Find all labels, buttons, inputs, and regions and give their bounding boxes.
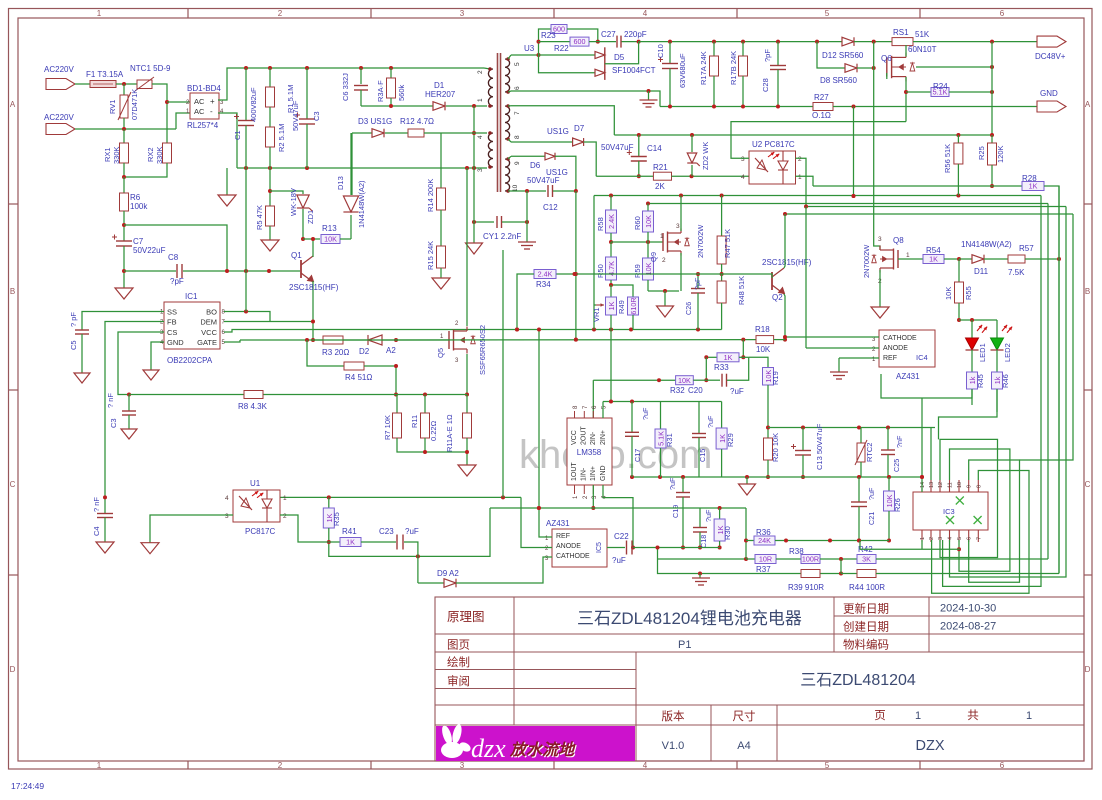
wire	[680, 253, 682, 291]
wire	[971, 350, 973, 372]
wire	[785, 213, 1073, 215]
svg-text:R22: R22	[554, 44, 569, 53]
wire	[721, 264, 723, 274]
svg-text:AZ431: AZ431	[896, 372, 920, 381]
mosfet Q6	[886, 57, 888, 76]
junction	[956, 133, 960, 137]
wire	[841, 573, 857, 575]
wire	[682, 477, 684, 492]
svg-text:3: 3	[460, 9, 465, 18]
wire	[881, 374, 972, 398]
svg-text:R58: R58	[596, 217, 605, 231]
ground C5	[74, 373, 90, 383]
wire	[996, 389, 998, 412]
svg-text:5: 5	[514, 62, 521, 66]
wire	[312, 239, 314, 257]
wire	[682, 497, 684, 548]
svg-text:D3 US1G: D3 US1G	[358, 117, 392, 126]
wire	[269, 147, 271, 168]
junction	[681, 475, 685, 479]
resistor R42	[857, 555, 876, 564]
wire	[957, 164, 959, 196]
junction	[801, 426, 805, 430]
wire	[605, 42, 639, 64]
svg-text:14: 14	[920, 482, 926, 488]
wire	[879, 270, 881, 307]
resistor R49	[628, 297, 639, 315]
svg-text:?uF: ?uF	[704, 509, 713, 522]
wire	[857, 67, 874, 69]
wire	[614, 134, 992, 136]
svg-text:R20 10K: R20 10K	[771, 433, 780, 462]
svg-text:1K: 1K	[607, 301, 616, 310]
svg-text:Q9: Q9	[649, 252, 658, 262]
svg-text:R13: R13	[322, 224, 337, 233]
wire	[75, 83, 90, 85]
wire	[887, 428, 889, 450]
wire	[796, 158, 807, 206]
svg-text:绘制: 绘制	[447, 655, 470, 669]
svg-text:50V22uF: 50V22uF	[133, 246, 166, 255]
junction	[574, 272, 578, 276]
wire	[739, 356, 749, 358]
wire	[592, 380, 594, 418]
junction	[990, 184, 994, 188]
svg-text:+: +	[210, 97, 215, 106]
junction	[127, 393, 131, 397]
junction	[744, 557, 748, 561]
wire	[151, 342, 164, 370]
diode D6	[545, 153, 555, 160]
wire	[906, 91, 931, 93]
svg-text:R49: R49	[617, 300, 626, 314]
wire	[473, 106, 475, 168]
wire	[706, 356, 717, 358]
wire	[466, 395, 468, 414]
svg-text:1K: 1K	[346, 538, 355, 547]
junction	[122, 82, 126, 86]
svg-text:C3: C3	[312, 111, 321, 121]
junction	[609, 194, 613, 198]
wire	[511, 190, 546, 192]
svg-text:17:24:49: 17:24:49	[11, 781, 44, 791]
wire	[802, 455, 804, 477]
wire	[840, 559, 842, 574]
junction	[311, 237, 315, 241]
wire	[596, 175, 653, 177]
wire	[176, 113, 190, 129]
ic IC3	[913, 492, 988, 530]
junction	[712, 105, 716, 109]
wire	[611, 280, 633, 297]
svg-text:C5: C5	[69, 340, 78, 350]
junction	[801, 475, 805, 479]
wire	[699, 508, 701, 527]
ground CY1 earth	[518, 241, 536, 243]
wire	[805, 207, 807, 349]
svg-text:2: 2	[283, 513, 287, 520]
junction	[637, 174, 641, 178]
svg-text:C1: C1	[233, 130, 242, 140]
svg-text:B: B	[1085, 287, 1090, 296]
svg-text:BD1-BD4: BD1-BD4	[187, 84, 221, 93]
wire	[841, 41, 843, 43]
wire	[742, 340, 744, 358]
svg-text:10K: 10K	[756, 345, 771, 354]
svg-text:R2 5.1M: R2 5.1M	[277, 124, 286, 152]
wire	[508, 55, 511, 59]
svg-text:10K: 10K	[644, 215, 653, 228]
svg-text:1: 1	[660, 233, 664, 240]
wire	[950, 449, 1010, 571]
ground C3b	[121, 429, 137, 439]
wire	[224, 321, 313, 323]
svg-text:1IN-: 1IN-	[581, 467, 588, 481]
wire	[360, 68, 362, 84]
svg-text:VCC: VCC	[201, 328, 217, 337]
wire	[691, 165, 693, 176]
wire	[424, 395, 426, 414]
junction	[537, 506, 541, 510]
svg-text:R8 4.3K: R8 4.3K	[238, 402, 268, 411]
wire	[124, 225, 227, 271]
junction	[766, 475, 770, 479]
svg-text:VR1: VR1	[592, 307, 601, 322]
junction	[839, 572, 843, 576]
resistor R38	[801, 555, 820, 564]
optocoupler U2	[749, 151, 796, 184]
svg-text:220pF: 220pF	[624, 30, 647, 39]
svg-text:C26: C26	[684, 302, 693, 315]
wire	[698, 402, 700, 434]
svg-text:C25: C25	[892, 459, 901, 472]
svg-text:A4: A4	[737, 740, 750, 752]
svg-text:C12: C12	[543, 203, 558, 212]
svg-text:SSF65R650S2: SSF65R650S2	[478, 325, 487, 375]
wire	[440, 133, 442, 188]
wire	[508, 139, 511, 142]
junction	[839, 557, 843, 561]
svg-text:600: 600	[574, 37, 586, 46]
svg-text:R30: R30	[723, 526, 732, 540]
wire	[721, 274, 723, 281]
wire	[555, 156, 576, 191]
wire	[777, 42, 779, 65]
svg-text:R31: R31	[665, 433, 674, 447]
ground R15	[432, 278, 450, 289]
wire	[858, 507, 860, 541]
svg-text:1: 1	[915, 710, 921, 722]
svg-text:D5: D5	[614, 53, 625, 62]
wire	[589, 41, 616, 43]
svg-text:120K: 120K	[996, 145, 1005, 163]
svg-text:R27: R27	[814, 93, 829, 102]
wire	[424, 438, 426, 452]
wire	[971, 389, 973, 405]
svg-text:2: 2	[278, 9, 283, 18]
svg-text:A: A	[10, 100, 16, 109]
svg-text:CY1 2.2nF: CY1 2.2nF	[483, 232, 521, 241]
wire	[776, 558, 801, 560]
wire	[727, 357, 749, 380]
junction	[630, 400, 634, 404]
svg-text:13: 13	[929, 482, 935, 488]
svg-text:RV1: RV1	[108, 100, 117, 114]
junction	[389, 66, 393, 70]
wire	[959, 319, 997, 321]
svg-text:R17B 24K: R17B 24K	[729, 51, 738, 85]
svg-text:D8 SR560: D8 SR560	[820, 76, 857, 85]
junction	[244, 269, 248, 273]
wire	[746, 540, 754, 542]
svg-text:dzx: dzx	[471, 734, 506, 763]
wire	[361, 105, 433, 107]
junction	[741, 40, 745, 44]
junction	[920, 475, 924, 479]
svg-text:2: 2	[929, 537, 935, 540]
junction	[267, 269, 271, 273]
wire	[343, 339, 368, 341]
junction	[712, 40, 716, 44]
svg-text:R3 20Ω: R3 20Ω	[322, 348, 349, 357]
wire	[603, 401, 722, 403]
svg-text:Q6: Q6	[881, 54, 892, 63]
junction	[327, 540, 331, 544]
wire	[397, 438, 467, 452]
junction	[957, 257, 961, 261]
junction	[690, 174, 694, 178]
wire	[128, 415, 130, 429]
svg-text:9: 9	[967, 485, 973, 488]
wire	[385, 132, 408, 134]
svg-text:3: 3	[878, 236, 882, 243]
junction	[704, 355, 708, 359]
svg-text:1OUT: 1OUT	[571, 462, 578, 481]
wire	[930, 428, 932, 481]
svg-text:R28: R28	[1022, 174, 1037, 183]
wire	[638, 161, 640, 176]
svg-text:R57: R57	[1019, 244, 1034, 253]
wire	[556, 273, 722, 275]
svg-text:C10: C10	[656, 44, 665, 58]
wire	[698, 438, 700, 478]
svg-text:V1.0: V1.0	[662, 740, 685, 752]
svg-text:C6 332J: C6 332J	[341, 73, 350, 101]
junction	[301, 237, 305, 241]
svg-text:Q2: Q2	[772, 293, 783, 302]
wire	[118, 332, 164, 395]
svg-text:C13 50V47uF: C13 50V47uF	[815, 423, 824, 470]
svg-text:BO: BO	[206, 308, 217, 317]
wire	[639, 41, 842, 43]
wire	[592, 485, 594, 508]
wire	[352, 132, 372, 134]
svg-text:?pF: ?pF	[693, 277, 702, 290]
junction	[658, 475, 662, 479]
svg-text:C7: C7	[133, 237, 144, 246]
wire	[958, 259, 960, 282]
diode D5 cathode bar	[604, 47, 606, 80]
junction	[815, 40, 819, 44]
svg-text:C17: C17	[633, 449, 642, 462]
wire	[511, 155, 545, 157]
svg-text:330K: 330K	[155, 146, 164, 164]
wire	[648, 290, 679, 292]
junction	[465, 393, 469, 397]
svg-text:PC817C: PC817C	[245, 527, 275, 536]
junction	[416, 554, 420, 558]
junction	[573, 272, 577, 276]
svg-text:C4: C4	[92, 526, 101, 536]
svg-text:2K: 2K	[655, 182, 665, 191]
wire	[633, 547, 683, 549]
svg-text:2N7002W: 2N7002W	[862, 244, 871, 278]
svg-text:610R: 610R	[629, 297, 638, 314]
svg-text:R56 51K: R56 51K	[943, 144, 952, 173]
svg-text:GND: GND	[600, 465, 607, 481]
wire	[360, 90, 362, 106]
svg-text:4: 4	[948, 537, 954, 540]
junction	[681, 546, 685, 550]
svg-text:D: D	[1085, 665, 1091, 674]
no-connect marks IC3	[956, 497, 964, 505]
wire	[245, 168, 247, 312]
wire	[991, 135, 993, 143]
junction	[852, 194, 856, 198]
svg-text:1: 1	[97, 761, 102, 770]
junction	[501, 495, 505, 499]
wire	[742, 76, 744, 107]
wire	[699, 574, 701, 579]
svg-text:7.5K: 7.5K	[1008, 268, 1025, 277]
svg-text:?uF: ?uF	[867, 487, 876, 500]
transformer primary winding 1	[488, 69, 493, 106]
svg-text:R39 910R: R39 910R	[788, 583, 824, 592]
junction	[990, 133, 994, 137]
svg-text:LED1: LED1	[978, 343, 987, 362]
resistor R21	[653, 172, 671, 180]
junction	[718, 546, 722, 550]
wire	[124, 270, 176, 272]
wire	[302, 209, 304, 239]
junction	[679, 194, 683, 198]
wire	[167, 101, 190, 103]
resistor R18	[756, 336, 774, 344]
wire	[396, 339, 756, 341]
junction	[630, 475, 634, 479]
wire	[838, 358, 840, 372]
wire	[508, 91, 511, 92]
svg-text:CS: CS	[167, 328, 177, 337]
svg-text:R15 24K: R15 24K	[426, 241, 435, 270]
wire	[722, 274, 772, 278]
wire	[269, 68, 271, 87]
wire	[306, 68, 308, 119]
wire	[672, 175, 750, 177]
wire	[631, 402, 633, 433]
svg-text:R54: R54	[926, 246, 941, 255]
junction	[122, 127, 126, 131]
wire	[996, 350, 998, 372]
wire	[328, 528, 330, 542]
wire	[746, 558, 755, 560]
ground Q8	[871, 307, 889, 318]
junction	[957, 318, 961, 322]
svg-text:R34: R34	[536, 280, 551, 289]
svg-text:共: 共	[967, 709, 979, 722]
svg-text:REF: REF	[556, 533, 570, 540]
svg-text:7: 7	[976, 537, 982, 540]
junction	[103, 495, 107, 499]
wire	[876, 558, 1048, 560]
wire	[82, 312, 164, 331]
wire	[382, 339, 396, 341]
port DC48V+	[1037, 36, 1066, 47]
junction	[359, 66, 363, 70]
svg-text:khcoo.com: khcoo.com	[519, 433, 712, 477]
wire	[351, 133, 353, 195]
svg-text:审阅: 审阅	[447, 674, 470, 688]
svg-text:C: C	[10, 480, 16, 489]
svg-text:400V82uF: 400V82uF	[249, 87, 258, 122]
wire	[719, 541, 721, 548]
svg-text:IC3: IC3	[943, 507, 955, 516]
wire	[874, 42, 880, 250]
wire	[466, 168, 468, 326]
wire	[237, 167, 487, 169]
wire	[303, 238, 320, 240]
svg-text:尺寸: 尺寸	[733, 709, 756, 723]
wire	[957, 135, 959, 143]
svg-text:3: 3	[676, 223, 680, 230]
wire	[315, 339, 396, 341]
svg-text:?uF: ?uF	[668, 477, 677, 490]
svg-text:4: 4	[477, 135, 484, 139]
svg-text:D2: D2	[359, 347, 370, 356]
junction	[609, 283, 613, 287]
wire	[959, 258, 972, 260]
svg-text:AZ431: AZ431	[546, 519, 570, 528]
wire	[691, 135, 693, 152]
wire	[104, 497, 106, 513]
wire	[508, 156, 511, 159]
wire	[508, 190, 511, 192]
junction	[225, 269, 229, 273]
wire	[971, 320, 973, 338]
wire	[123, 177, 125, 193]
junction	[663, 289, 667, 293]
wire	[669, 42, 671, 63]
junction	[720, 194, 724, 198]
optocoupler U1	[233, 490, 280, 522]
wire	[280, 496, 521, 498]
wire	[396, 395, 398, 414]
wire	[706, 379, 720, 381]
resistor R34	[534, 270, 556, 279]
svg-text:SF1004FCT: SF1004FCT	[612, 66, 656, 75]
svg-text:60N10T: 60N10T	[908, 45, 937, 54]
junction	[305, 338, 309, 342]
wire	[603, 485, 633, 548]
wire	[553, 190, 576, 192]
wire	[123, 246, 125, 288]
resistor R28	[1022, 182, 1044, 191]
svg-text:4: 4	[225, 495, 229, 502]
svg-text:100k: 100k	[130, 202, 148, 211]
svg-text:D7: D7	[574, 124, 585, 133]
wire	[511, 106, 614, 135]
junction	[704, 378, 708, 382]
